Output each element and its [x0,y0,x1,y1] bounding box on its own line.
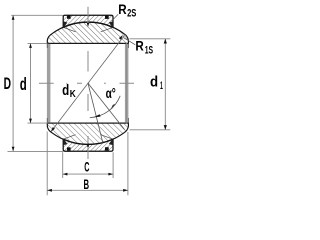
d1 arrow top [164,39,167,44]
inner ring left face (gray band) [47,43,51,123]
svg-text:d: d [62,82,69,99]
seal lower-right [109,139,113,145]
seal lip line upper-right [101,28,113,32]
D dimension [8,15,65,151]
dK arrow top-right [119,35,123,40]
bore top line [47,42,128,44]
d dimension [28,43,49,123]
C arrow left [63,173,68,176]
d1 dimension [130,39,171,130]
outer ring lower section (mirrored) [63,139,113,151]
apex arrow down (top) [87,23,89,27]
R2S leader [112,14,118,21]
inner ring left face edge lines [46,43,48,48]
arc arrow near diagonal [111,104,115,109]
B dimension [47,132,128,196]
inner ring right face edge lines [126,43,128,123]
lube square upper-left [67,16,71,19]
dK diagonal through center [51,35,124,131]
lube square upper-right [105,16,109,19]
seal lip line lower-right [101,135,113,139]
vertical centerline [87,7,89,159]
svg-text:α°: α° [106,86,116,101]
svg-text:C: C [84,159,89,175]
d1 arrow bottom [164,125,167,130]
svg-text:1: 1 [160,80,163,92]
seal lip line upper-left [64,28,76,32]
arc arrow near steep ray [94,114,101,117]
apex arrow up (bottom) [87,143,89,147]
svg-text:d: d [150,75,158,91]
B arrow right [123,189,128,192]
svg-text:K: K [70,88,76,100]
svg-text:d: d [20,74,27,94]
seal lower-left [63,139,67,145]
svg-text:R: R [118,1,126,17]
inner ring lower section (sphere dome, mirrored) [47,123,128,144]
d arrow top [29,43,32,48]
horizontal centerline [39,82,134,84]
diagonal center to lower-right corner [88,83,125,129]
C dimension [63,152,113,178]
B arrow left [47,189,52,192]
seal upper-right [109,21,113,27]
lube square lower-right [105,147,109,150]
steep tilt ray [88,83,103,142]
svg-text:2S: 2S [127,7,136,19]
svg-text:D: D [4,75,11,93]
bore bottom line [47,122,128,124]
d arrow bottom [29,119,32,124]
svg-text:B: B [84,176,90,192]
svg-text:1S: 1S [145,44,153,56]
seal upper-left [63,21,67,27]
angle alpha arc [90,96,120,118]
dK arrow bottom-left [51,127,55,132]
D arrow bottom [12,147,15,152]
C arrow right [108,173,113,176]
seal lip line lower-left [64,135,76,139]
D arrow top [12,15,15,19]
inner ring upper section (sphere dome) [47,22,128,43]
svg-text:R: R [135,38,143,54]
lube square lower-left [67,147,71,150]
inner ring right face (gray band) [125,43,128,123]
outer ring upper section [63,15,113,27]
R1S leader [124,38,136,45]
